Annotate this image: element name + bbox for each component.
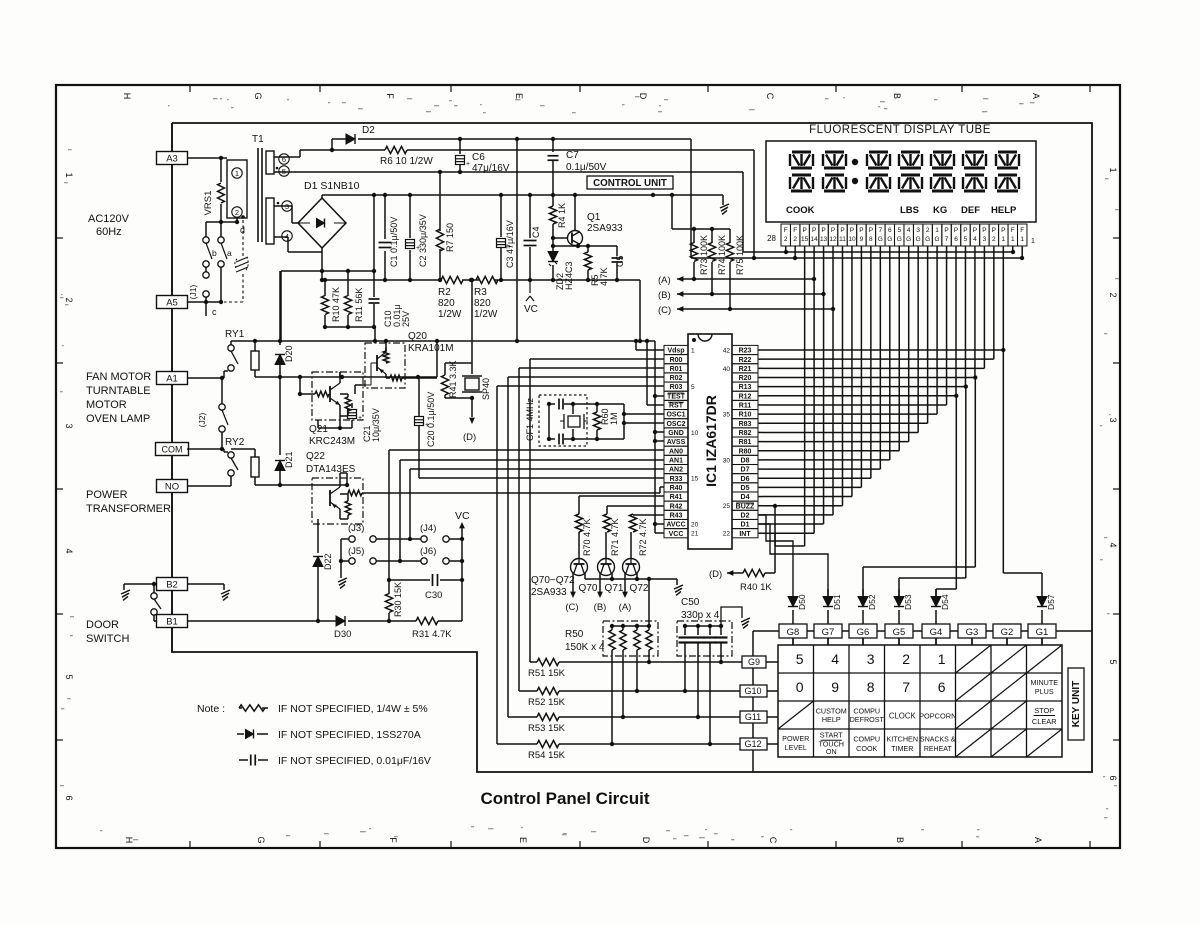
- svg-text:Vdsp: Vdsp: [667, 348, 684, 355]
- svg-text:28: 28: [767, 234, 776, 243]
- svg-text:A1: A1: [166, 373, 178, 384]
- wire G8 chain to G9-G12 chain: [752, 631, 754, 772]
- wire G feed D50: [758, 515, 793, 596]
- svg-text:5: 5: [1108, 659, 1118, 664]
- svg-text:1: 1: [938, 651, 946, 667]
- wire pin23 to D57 G1 column: [1001, 348, 1005, 352]
- wire speaker feed riser: [471, 280, 473, 363]
- svg-text:VRS1: VRS1: [203, 191, 214, 216]
- wire rail172 drop: [742, 172, 744, 252]
- svg-text:LEVEL: LEVEL: [785, 743, 807, 752]
- transistor Q1 2SA933: [568, 231, 583, 246]
- svg-text:H: H: [122, 93, 132, 100]
- svg-text:C30: C30: [425, 590, 442, 601]
- svg-text:D5: D5: [741, 485, 750, 492]
- svg-text:OVEN LAMP: OVEN LAMP: [86, 413, 150, 425]
- svg-text:CLOCK: CLOCK: [889, 711, 917, 720]
- connector A3: [157, 152, 188, 165]
- interlock switch a: [220, 222, 222, 237]
- wire rail139: [460, 138, 691, 140]
- wire AN0 to R30: [389, 449, 664, 451]
- svg-text:REHEAT: REHEAT: [924, 746, 953, 753]
- wire OSC1: [624, 413, 664, 415]
- svg-text:0: 0: [796, 679, 804, 695]
- wire rail150 drop: [753, 150, 755, 258]
- wire rail280: [322, 279, 442, 281]
- wire rail246: [553, 245, 617, 247]
- svg-text:820: 820: [474, 298, 491, 309]
- svg-text:1: 1: [1001, 236, 1005, 243]
- svg-text:2: 2: [64, 297, 74, 302]
- wire NO to RY2: [187, 485, 231, 487]
- svg-text:BUZZ: BUZZ: [736, 503, 755, 510]
- svg-text:2: 2: [793, 236, 797, 243]
- wire Q20 output riser: [436, 341, 438, 377]
- svg-text:Q20: Q20: [408, 331, 427, 342]
- svg-text:MOTOR: MOTOR: [86, 399, 127, 411]
- svg-text:(A): (A): [658, 275, 671, 286]
- svg-text:P: P: [821, 227, 825, 234]
- ground collector bus: [676, 579, 678, 585]
- wire AN1: [400, 459, 664, 461]
- wire rail172: [274, 171, 743, 173]
- svg-text:R51 15K: R51 15K: [528, 668, 566, 679]
- svg-text:COOK: COOK: [786, 205, 815, 216]
- svg-text:P: P: [992, 227, 996, 234]
- svg-text:2: 2: [902, 651, 910, 667]
- wire primary bottom: [236, 218, 238, 222]
- svg-text:15: 15: [801, 236, 809, 243]
- svg-text:E: E: [514, 93, 524, 99]
- svg-text:(C): (C): [658, 305, 671, 316]
- svg-text:B2: B2: [166, 579, 178, 590]
- svg-text:3: 3: [983, 236, 987, 243]
- svg-text:VCC: VCC: [669, 531, 684, 538]
- svg-text:R71 4.7K: R71 4.7K: [610, 518, 620, 556]
- svg-text:G: G: [256, 836, 266, 843]
- svg-text:R31 4.7K: R31 4.7K: [412, 629, 452, 640]
- ground at rail195: [722, 195, 724, 205]
- svg-text:R12: R12: [739, 393, 752, 400]
- svg-text:A: A: [1033, 837, 1043, 843]
- resistor R51 15K bus: [530, 661, 537, 663]
- wire R41 to R70: [579, 495, 664, 497]
- svg-text:AVSS: AVSS: [667, 439, 686, 446]
- capacitor C1 0.1u/50V: [384, 195, 386, 239]
- wire J3 J5 ground: [340, 539, 342, 578]
- svg-text:R30 15K: R30 15K: [393, 582, 403, 617]
- svg-text:A5: A5: [166, 297, 178, 308]
- wire R73 rail 229: [672, 228, 730, 230]
- svg-text:CLEAR: CLEAR: [1032, 717, 1057, 726]
- svg-text:4: 4: [1108, 542, 1118, 547]
- wire G1 to right border: [1056, 630, 1092, 632]
- border ticks: [189, 85, 191, 92]
- resistor R53 15K bus: [508, 716, 537, 718]
- display tube box: [766, 141, 1036, 222]
- connector A5: [157, 296, 188, 309]
- relay RY1 coil: [251, 351, 259, 370]
- svg-text:(D): (D): [709, 569, 722, 580]
- svg-text:R11: R11: [739, 403, 752, 410]
- connector G11: [740, 711, 767, 723]
- svg-text:TIMER: TIMER: [891, 744, 913, 753]
- wire A5 row: [187, 301, 221, 303]
- resistor R72 4.7K: [629, 514, 636, 532]
- capacitor C10 0.01u 25V: [373, 271, 375, 297]
- svg-text:4: 4: [64, 548, 74, 553]
- wire door to B1: [154, 620, 156, 622]
- svg-text:R00: R00: [670, 357, 683, 364]
- svg-text:15: 15: [691, 476, 699, 483]
- svg-text:6: 6: [888, 227, 892, 234]
- crystal box CF1 4MHz: [539, 395, 587, 446]
- svg-text:DEF: DEF: [961, 205, 980, 216]
- svg-text:SNACKS &: SNACKS &: [920, 737, 956, 744]
- wire winding4 to bridge: [274, 236, 288, 238]
- wire R40 riser to BUZZ: [774, 506, 776, 573]
- svg-text:POWER: POWER: [86, 489, 128, 501]
- svg-text:2: 2: [784, 236, 788, 243]
- display colon dots: [852, 159, 858, 165]
- svg-text:10μ/35V: 10μ/35V: [371, 408, 381, 442]
- ground C50: [721, 607, 742, 626]
- svg-text:R40: R40: [670, 485, 683, 492]
- svg-text:KG: KG: [933, 205, 947, 216]
- connector B1: [157, 615, 188, 628]
- svg-text:G1: G1: [1036, 627, 1049, 638]
- wire OSC2: [624, 422, 664, 424]
- wire left column: [171, 123, 173, 652]
- svg-text:R03: R03: [670, 384, 683, 391]
- connector G9: [742, 656, 766, 668]
- svg-text:IF NOT SPECIFIED, 1/4W ± 5%: IF NOT SPECIFIED, 1/4W ± 5%: [278, 703, 428, 715]
- svg-text:10: 10: [691, 430, 699, 437]
- transistor Q70: [571, 559, 588, 576]
- wire a chain down: [220, 267, 222, 302]
- svg-text:D21: D21: [284, 451, 294, 468]
- transformer secondary 6-5 winding: [266, 151, 274, 174]
- svg-text:Note :: Note :: [197, 703, 225, 715]
- svg-text:b: b: [212, 248, 217, 258]
- diode D20: [279, 271, 281, 345]
- svg-text:VC: VC: [455, 510, 470, 522]
- svg-text:2: 2: [926, 227, 930, 234]
- svg-text:TEST: TEST: [667, 393, 686, 400]
- resistor R5 4.7K: [587, 246, 589, 252]
- interlock switch b: [205, 222, 207, 237]
- svg-text:(A): (A): [619, 602, 632, 613]
- wire winding3 to bridge: [274, 205, 292, 207]
- resistor R6 10 1/2W: [332, 149, 385, 151]
- svg-text:R22: R22: [739, 357, 752, 364]
- diode D21: [279, 377, 281, 455]
- svg-text:B: B: [892, 93, 902, 99]
- svg-text:R53 15K: R53 15K: [528, 723, 566, 734]
- svg-text:C6: C6: [472, 152, 485, 163]
- svg-text:6: 6: [282, 155, 286, 164]
- svg-text:C50: C50: [681, 597, 700, 608]
- svg-text:1: 1: [235, 169, 239, 178]
- svg-text:HZ4C3: HZ4C3: [564, 261, 574, 290]
- wire C50 bottoms: [684, 662, 686, 691]
- svg-text:RY2: RY2: [225, 437, 245, 448]
- svg-text:SP40: SP40: [481, 378, 491, 400]
- svg-text:R4 1K: R4 1K: [557, 203, 567, 228]
- svg-text:4: 4: [831, 651, 839, 667]
- connector G12: [740, 738, 767, 750]
- svg-text:G: G: [253, 92, 263, 99]
- svg-text:KEY UNIT: KEY UNIT: [1071, 681, 1082, 728]
- svg-text:G: G: [878, 236, 883, 243]
- svg-text:D20: D20: [284, 345, 294, 362]
- svg-text:G6: G6: [857, 627, 870, 638]
- wire Q22 emitter down: [317, 519, 319, 524]
- svg-text:5: 5: [64, 674, 74, 679]
- svg-text:150K x 4: 150K x 4: [565, 642, 605, 653]
- diode D51: [827, 589, 829, 596]
- wire A3 to transformer: [187, 157, 227, 159]
- svg-text:Q1: Q1: [587, 212, 601, 223]
- svg-text:KRC243M: KRC243M: [309, 436, 355, 447]
- resistor R7 150: [439, 172, 441, 231]
- wire Vdsp route: [636, 349, 664, 351]
- capacitor C20 0.1u/50V: [418, 377, 420, 416]
- resistor R70 4.7K: [575, 514, 582, 532]
- varistor VRS1: [220, 158, 222, 182]
- svg-text:COMPU: COMPU: [853, 735, 880, 744]
- display digits: [792, 150, 811, 153]
- door switch contacts: [153, 584, 155, 593]
- svg-text:VC: VC: [524, 304, 538, 315]
- svg-text:(J1): (J1): [188, 285, 198, 300]
- svg-text:G5: G5: [893, 627, 906, 638]
- connector COM: [156, 443, 189, 456]
- wire R02 from R53 bus: [507, 377, 509, 717]
- svg-text:11: 11: [839, 236, 846, 243]
- svg-text:R7 150: R7 150: [445, 223, 455, 252]
- diode D57: [1037, 597, 1047, 607]
- svg-text:F: F: [1020, 227, 1024, 234]
- svg-text:C2 330μ/35V: C2 330μ/35V: [418, 214, 428, 267]
- svg-text:6: 6: [954, 236, 958, 243]
- diode D52: [862, 589, 864, 596]
- svg-text:R3: R3: [474, 287, 487, 298]
- svg-text:20: 20: [691, 522, 699, 529]
- svg-text:14: 14: [810, 236, 818, 243]
- svg-text:R72 4.7K: R72 4.7K: [638, 518, 648, 556]
- svg-text:C5: C5: [615, 255, 625, 267]
- svg-text:G11: G11: [745, 712, 761, 722]
- svg-text:IF NOT SPECIFIED, 1SS270A: IF NOT SPECIFIED, 1SS270A: [278, 729, 421, 741]
- svg-text:GND: GND: [668, 430, 684, 437]
- arrow to (D) from speaker: [471, 398, 473, 417]
- resistor R73 100K: [693, 229, 695, 243]
- svg-text:FLUORESCENT DISPLAY TUBE: FLUORESCENT DISPLAY TUBE: [809, 124, 991, 136]
- border frame: [56, 85, 1120, 848]
- svg-text:AN0: AN0: [669, 448, 683, 455]
- diode D2: [332, 138, 346, 140]
- relay RY2 contact: [228, 452, 234, 458]
- resistor R71 4.7K: [603, 514, 610, 532]
- svg-text:42: 42: [723, 348, 731, 355]
- wire Q22 collector to RY2 rail: [339, 473, 341, 478]
- svg-text:R81: R81: [739, 439, 752, 446]
- wire RST riser: [646, 341, 648, 405]
- svg-text:D22: D22: [323, 553, 333, 570]
- svg-text:9: 9: [831, 679, 839, 695]
- capacitor osc bottom: [549, 438, 555, 440]
- resistor R60 1M: [573, 403, 624, 405]
- svg-text:PLUS: PLUS: [1035, 687, 1054, 696]
- wire rail271 left drop: [280, 271, 282, 341]
- svg-text:25: 25: [723, 503, 731, 510]
- transistor Q20 internals: [376, 355, 378, 371]
- svg-text:2SA933: 2SA933: [587, 223, 623, 234]
- svg-text:1: 1: [1031, 238, 1035, 245]
- svg-text:R52 15K: R52 15K: [528, 697, 566, 708]
- svg-text:13: 13: [820, 236, 828, 243]
- svg-text:G10: G10: [744, 686, 761, 696]
- svg-text:Q22: Q22: [306, 451, 325, 462]
- svg-text:D50: D50: [797, 594, 807, 610]
- svg-text:1: 1: [64, 172, 74, 177]
- svg-text:R70 4.7K: R70 4.7K: [582, 518, 592, 556]
- svg-text:(J6): (J6): [420, 546, 436, 557]
- svg-text:330p x 4: 330p x 4: [681, 610, 720, 621]
- svg-text:4: 4: [907, 227, 911, 234]
- svg-text:+: +: [466, 161, 470, 168]
- transistor Q21 internals: [329, 386, 331, 402]
- connector G10: [740, 685, 767, 697]
- svg-text:Q72: Q72: [630, 583, 649, 594]
- svg-text:7: 7: [945, 236, 949, 243]
- interlock J1 contacts: [205, 267, 207, 272]
- svg-text:D7: D7: [741, 467, 750, 474]
- svg-text:820: 820: [438, 298, 455, 309]
- svg-text:TURNTABLE: TURNTABLE: [86, 385, 151, 397]
- wire R03 from R54 bus: [496, 386, 498, 744]
- svg-text:5: 5: [897, 227, 901, 234]
- stub c: [205, 302, 207, 316]
- wire Q70-72 collector bus: [584, 573, 586, 579]
- svg-text:4: 4: [973, 236, 977, 243]
- svg-text:P: P: [1001, 227, 1005, 234]
- svg-text:8: 8: [869, 236, 873, 243]
- svg-text:C4: C4: [531, 226, 541, 238]
- svg-text:R02: R02: [670, 375, 683, 382]
- svg-text:D: D: [641, 837, 651, 844]
- transistor Q71: [598, 559, 615, 576]
- wire B2 right stub: [187, 583, 224, 585]
- wire Q22 base resistor out: [339, 477, 341, 479]
- door switch: [124, 583, 156, 585]
- wire R42 to R71: [607, 505, 664, 507]
- svg-text:D4: D4: [741, 494, 750, 501]
- svg-text:DTA143ES: DTA143ES: [306, 464, 356, 475]
- svg-text:R74 100K: R74 100K: [717, 235, 727, 275]
- wire pin19 to D53 column: [964, 384, 968, 388]
- svg-text:P: P: [954, 227, 958, 234]
- svg-text:12: 12: [829, 236, 837, 243]
- svg-text:G7: G7: [822, 627, 835, 638]
- svg-text:(D): (D): [463, 432, 476, 443]
- wire Q20 emitter out: [385, 374, 387, 378]
- IC1 left pin stubs: [664, 345, 688, 354]
- svg-text:a: a: [227, 248, 232, 258]
- connector B2: [157, 578, 188, 591]
- relay RY2 coil: [251, 457, 259, 477]
- resistor R2 820 1/2W: [441, 276, 463, 283]
- svg-text:B1: B1: [166, 616, 178, 627]
- svg-text:(J4): (J4): [420, 523, 436, 534]
- svg-text:1: 1: [691, 348, 695, 355]
- svg-text:AN2: AN2: [669, 467, 683, 474]
- box R50 150K x 4: [603, 621, 658, 656]
- svg-text:D52: D52: [867, 594, 877, 610]
- svg-text:P: P: [944, 227, 948, 234]
- svg-text:G: G: [935, 236, 940, 243]
- wire bridge bottom drop: [321, 252, 323, 280]
- svg-text:H: H: [124, 837, 134, 844]
- svg-text:R83: R83: [739, 421, 752, 428]
- svg-text:40: 40: [723, 366, 731, 373]
- svg-text:HELP: HELP: [822, 715, 841, 724]
- wire bridge top to rail: [321, 195, 323, 198]
- wire winding6 to D2 node: [274, 156, 300, 158]
- transformer core: [257, 148, 259, 242]
- svg-text:C20 0.1μ/50V: C20 0.1μ/50V: [426, 392, 436, 447]
- transformer T1 primary: [227, 160, 247, 218]
- svg-text:IF NOT SPECIFIED, 0.01μF/16V: IF NOT SPECIFIED, 0.01μF/16V: [278, 755, 431, 767]
- svg-text:P: P: [973, 227, 977, 234]
- svg-text:3: 3: [1108, 417, 1118, 422]
- svg-text:COOK: COOK: [856, 744, 877, 753]
- IC1 IZA617DR body: [688, 334, 732, 549]
- capacitor C6 47u/16V: [459, 139, 461, 154]
- wire C10 top column: [373, 195, 375, 271]
- wire Q21 collector: [339, 372, 341, 377]
- keypad grid: [778, 645, 1062, 757]
- svg-text:C: C: [768, 837, 778, 844]
- svg-text:SWITCH: SWITCH: [86, 633, 129, 645]
- diode D53: [898, 589, 900, 596]
- connector NO: [157, 480, 188, 493]
- wire RY2 top: [231, 448, 255, 450]
- wire riser 375: [374, 327, 376, 341]
- relay RY1 contact: [228, 345, 234, 351]
- svg-text:1: 1: [1020, 236, 1024, 243]
- capacitor C21 10u/35V: [340, 427, 352, 429]
- svg-text:22: 22: [723, 531, 731, 538]
- capacitor C3 47u/16V: [500, 195, 502, 237]
- svg-text:(B): (B): [594, 602, 607, 613]
- svg-text:10: 10: [848, 236, 856, 243]
- svg-text:(C): (C): [565, 602, 578, 613]
- box CONTROL UNIT: [587, 176, 673, 189]
- resistor R74 100K: [711, 229, 713, 243]
- svg-text:R41: R41: [670, 494, 683, 501]
- svg-text:T1: T1: [252, 134, 264, 145]
- svg-text:R10: R10: [739, 412, 752, 419]
- svg-text:P: P: [840, 227, 844, 234]
- svg-text:8: 8: [867, 679, 875, 695]
- svg-text:Control Panel Circuit: Control Panel Circuit: [480, 789, 649, 808]
- svg-text:DEFROST: DEFROST: [850, 715, 885, 724]
- wire COM to RY2: [187, 448, 224, 450]
- wire rail195 VC: [322, 194, 723, 196]
- svg-text:R11 56K: R11 56K: [354, 288, 364, 322]
